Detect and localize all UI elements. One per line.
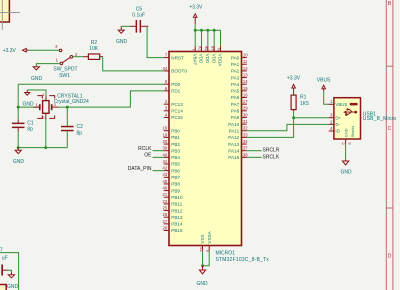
MCU left pins xyxy=(163,53,188,234)
svg-text:41: 41 xyxy=(163,159,168,164)
crystal CRYSTAL1 Crystal_GND24 xyxy=(34,92,90,120)
wire VDD pin drop xyxy=(207,30,209,46)
svg-text:GND: GND xyxy=(7,284,19,290)
svg-text:PD0: PD0 xyxy=(171,82,180,87)
wire C1 to gnd rail xyxy=(17,131,19,147)
partial symbol bottom-left corner xyxy=(0,285,6,290)
resistor R1 1K5 xyxy=(291,94,309,111)
svg-text:VBAT: VBAT xyxy=(192,54,197,66)
svg-text:PB8: PB8 xyxy=(171,182,180,187)
svg-text:15: 15 xyxy=(243,86,248,91)
wire crystal pin1 xyxy=(18,106,39,108)
junction xyxy=(66,106,69,109)
svg-text:19: 19 xyxy=(163,132,168,137)
svg-text:VBUS: VBUS xyxy=(317,78,331,84)
svg-text:PB10: PB10 xyxy=(171,195,183,200)
svg-text:PB1: PB1 xyxy=(171,135,180,140)
svg-text:20: 20 xyxy=(163,139,168,144)
switch SW1 SW_SPDT xyxy=(53,44,78,79)
wire osc vertical (C1 branch) xyxy=(17,84,19,119)
wire GND to C5 xyxy=(121,25,130,27)
wire VSSA to GND xyxy=(203,251,210,266)
svg-text:SRCLR: SRCLR xyxy=(263,148,280,154)
svg-text:13: 13 xyxy=(243,72,248,77)
capacitor C2 8p xyxy=(61,107,83,147)
svg-text:1K5: 1K5 xyxy=(300,101,309,107)
capacitor C5 0.1uF xyxy=(130,6,148,32)
svg-text:VDD: VDD xyxy=(199,54,204,64)
svg-text:VBUS: VBUS xyxy=(335,102,347,107)
capacitor (partial, bottom-left) reference 7 and value uF xyxy=(0,247,8,275)
wire crystal pin2 drop xyxy=(45,120,47,148)
svg-text:GND: GND xyxy=(196,281,208,287)
wire OSC net to PD0 xyxy=(18,83,164,85)
svg-text:PA13: PA13 xyxy=(228,142,239,147)
svg-text:8p: 8p xyxy=(27,127,33,133)
wire SW1 pin 1 to GND xyxy=(36,64,60,67)
wire crystal pin3 to junction xyxy=(59,106,68,108)
svg-text:PB6: PB6 xyxy=(171,168,180,173)
svg-text:PA7: PA7 xyxy=(231,102,240,107)
junction xyxy=(17,146,20,149)
wire label RCLK to PB pin xyxy=(153,150,164,152)
svg-text:SW_SPDT: SW_SPDT xyxy=(53,67,77,73)
junction xyxy=(200,29,203,32)
wire VBAT pin drop xyxy=(194,30,196,46)
svg-text:PA9: PA9 xyxy=(231,115,240,120)
svg-text:45: 45 xyxy=(163,179,168,184)
svg-text:PA4: PA4 xyxy=(231,82,240,87)
svg-text:PA3: PA3 xyxy=(231,75,240,80)
partial symbol top-left corner xyxy=(0,0,20,30)
svg-text:VDD: VDD xyxy=(211,54,216,64)
svg-text:GND: GND xyxy=(343,128,348,137)
svg-text:25: 25 xyxy=(163,205,168,210)
wire VDD pin drop xyxy=(213,30,215,46)
svg-text:18: 18 xyxy=(163,126,168,131)
svg-text:SRCLK: SRCLK xyxy=(263,154,280,160)
svg-text:D: D xyxy=(388,253,392,259)
svg-text:33: 33 xyxy=(243,132,248,137)
wire USB shield to GND xyxy=(345,143,347,159)
svg-text:Shield: Shield xyxy=(350,126,355,137)
wire VDD rail xyxy=(195,29,220,31)
wire crystal shield top xyxy=(27,90,46,96)
svg-text:26: 26 xyxy=(163,212,168,217)
svg-text:PA10: PA10 xyxy=(228,122,239,127)
svg-text:C2: C2 xyxy=(77,124,84,130)
svg-text:DATA_PIN: DATA_PIN xyxy=(128,166,152,172)
capacitor C1 8p xyxy=(12,120,34,133)
svg-text:PA14: PA14 xyxy=(228,148,239,153)
svg-text:NRST: NRST xyxy=(171,55,184,60)
svg-text:USB_B_Micro: USB_B_Micro xyxy=(363,116,397,122)
svg-text:VDDA: VDDA xyxy=(218,54,223,68)
svg-text:GND: GND xyxy=(340,170,352,176)
svg-text:22: 22 xyxy=(163,199,168,204)
svg-text:SW1: SW1 xyxy=(59,73,70,79)
wire crystal to PD1 xyxy=(67,91,164,107)
svg-text:32: 32 xyxy=(243,126,248,131)
svg-text:40: 40 xyxy=(163,152,168,157)
power symbol +3.3V (R1) xyxy=(287,76,301,96)
svg-text:7: 7 xyxy=(0,247,3,253)
svg-text:8p: 8p xyxy=(77,131,83,137)
MCU right pins xyxy=(228,53,248,161)
wire label SRCLK xyxy=(247,156,262,158)
svg-text:VSS: VSS xyxy=(200,234,205,243)
svg-text:MICRO1: MICRO1 xyxy=(216,251,236,257)
junction xyxy=(213,29,216,32)
junction xyxy=(194,29,197,32)
wire VBUS to USB pin1 xyxy=(324,91,329,104)
svg-text:PA1: PA1 xyxy=(231,62,240,67)
svg-text:16: 16 xyxy=(243,92,248,97)
svg-text:21: 21 xyxy=(163,192,168,197)
svg-text:PA5: PA5 xyxy=(231,89,240,94)
svg-text:PB14: PB14 xyxy=(171,222,183,227)
svg-text:PB7: PB7 xyxy=(171,175,180,180)
svg-text:PB3: PB3 xyxy=(171,148,180,153)
svg-text:44: 44 xyxy=(163,66,168,71)
svg-text:PA15: PA15 xyxy=(228,155,239,160)
wire gnd rail xyxy=(18,147,67,149)
ground symbol (switch) xyxy=(31,67,43,82)
svg-text:C1: C1 xyxy=(27,120,34,126)
wire PA11 to USB D- xyxy=(247,124,329,130)
svg-text:PB2: PB2 xyxy=(171,142,180,147)
power symbol VBUS xyxy=(317,78,331,92)
junction xyxy=(206,29,209,32)
wire R2 to BOOT0 xyxy=(103,57,164,71)
svg-text:11: 11 xyxy=(243,59,248,64)
svg-text:PB0: PB0 xyxy=(171,128,180,133)
svg-text:27: 27 xyxy=(163,219,168,224)
svg-text:D+: D+ xyxy=(335,115,341,120)
svg-text:GND: GND xyxy=(31,76,43,82)
ground symbol (crystal rail) xyxy=(13,148,25,165)
svg-text:23: 23 xyxy=(199,247,204,252)
svg-text:GND: GND xyxy=(22,102,34,108)
svg-text:R2: R2 xyxy=(91,40,98,46)
svg-text:PC15: PC15 xyxy=(171,115,183,120)
ground symbol (bottom-left) xyxy=(7,272,19,290)
svg-text:PB5: PB5 xyxy=(171,162,180,167)
svg-text:PB9: PB9 xyxy=(171,188,180,193)
svg-text:+3.3V: +3.3V xyxy=(189,4,203,10)
junction xyxy=(201,264,204,267)
svg-text:PB15: PB15 xyxy=(171,228,183,233)
svg-text:PB4: PB4 xyxy=(171,155,180,160)
svg-text:GND: GND xyxy=(116,39,128,45)
svg-text:34: 34 xyxy=(243,139,248,144)
svg-text:PD1: PD1 xyxy=(171,89,180,94)
wire C5 to NRST xyxy=(147,26,164,57)
svg-text:RCLK: RCLK xyxy=(138,146,152,152)
svg-text:0.1uF: 0.1uF xyxy=(132,13,145,19)
svg-text:29: 29 xyxy=(243,106,248,111)
svg-text:OE: OE xyxy=(144,153,152,159)
wire label DATA_PIN to PB pin xyxy=(153,170,164,172)
svg-text:C5: C5 xyxy=(136,6,143,12)
svg-text:C: C xyxy=(388,126,392,132)
svg-text:38: 38 xyxy=(243,152,248,157)
svg-text:42: 42 xyxy=(163,166,168,171)
svg-text:46: 46 xyxy=(163,186,168,191)
svg-text:PA2: PA2 xyxy=(231,69,240,74)
MCU MICRO1 body xyxy=(169,52,242,246)
power symbol +3.3V (MCU) xyxy=(189,4,203,24)
svg-text:PA8: PA8 xyxy=(231,109,240,114)
MCU bottom pins VSS VSSA xyxy=(199,230,212,251)
wire VDDA pin drop xyxy=(220,30,222,46)
junction xyxy=(44,146,47,149)
wire to USB D+ xyxy=(294,117,329,119)
svg-text:10K: 10K xyxy=(89,46,99,52)
wire PA12 to R1/D+ xyxy=(247,111,294,137)
ground symbol (USB) xyxy=(340,159,352,175)
ground symbol (C5) xyxy=(116,26,128,45)
svg-text:39: 39 xyxy=(163,146,168,151)
svg-text:14: 14 xyxy=(243,79,248,84)
svg-text:+3.3V: +3.3V xyxy=(287,76,301,82)
power symbol +3.3V (switch) xyxy=(3,48,29,54)
wire +3.3V stem xyxy=(194,24,196,30)
svg-text:VDD: VDD xyxy=(205,54,210,64)
wire VDD pin drop xyxy=(201,30,203,46)
svg-text:GND: GND xyxy=(13,159,25,165)
ground symbol (crystal top) xyxy=(22,90,34,108)
svg-text:PA11: PA11 xyxy=(229,128,240,133)
svg-text:VSSA: VSSA xyxy=(207,230,212,243)
junction xyxy=(292,116,295,119)
svg-text:28: 28 xyxy=(163,225,168,230)
svg-text:BOOT0: BOOT0 xyxy=(171,69,187,74)
svg-text:43: 43 xyxy=(163,172,168,177)
svg-text:uF: uF xyxy=(2,255,8,261)
wire cap to GND xyxy=(8,270,12,272)
wire bottom-left net xyxy=(0,253,19,290)
svg-text:Crystal_GND24: Crystal_GND24 xyxy=(54,99,89,105)
wire label SRCLR xyxy=(247,150,262,152)
wire label OE to PB pin xyxy=(153,156,164,158)
svg-text:30: 30 xyxy=(243,112,248,117)
svg-text:ID: ID xyxy=(335,129,339,134)
wire +3.3V to SW1 pin 3 xyxy=(29,49,59,51)
sheet border (right edge) xyxy=(386,0,393,290)
MCU top pins VBAT VDD VDD VDD VDDA xyxy=(191,45,222,67)
svg-text:+3.3V: +3.3V xyxy=(3,48,17,54)
svg-text:D-: D- xyxy=(335,122,340,127)
svg-text:STM32F103C_8-B_Tx: STM32F103C_8-B_Tx xyxy=(216,257,270,263)
svg-text:37: 37 xyxy=(243,146,248,151)
junction xyxy=(17,106,20,109)
svg-text:PA0: PA0 xyxy=(231,55,240,60)
ground symbol (MCU) xyxy=(196,266,208,287)
connector USB1 USB_B_Micro xyxy=(329,98,397,145)
svg-text:R1: R1 xyxy=(300,94,307,100)
svg-text:PA12: PA12 xyxy=(228,135,239,140)
wire VSS to GND xyxy=(202,251,204,266)
svg-text:12: 12 xyxy=(243,66,248,71)
resistor R2 10K xyxy=(83,40,103,59)
svg-text:PA6: PA6 xyxy=(231,95,240,100)
wire SW1 pin 2 to R2 xyxy=(73,56,83,58)
svg-text:17: 17 xyxy=(243,99,248,104)
svg-text:PB13: PB13 xyxy=(171,215,183,220)
svg-text:31: 31 xyxy=(243,119,248,124)
svg-text:PC14: PC14 xyxy=(171,109,183,114)
svg-text:10: 10 xyxy=(243,53,248,58)
svg-text:PB11: PB11 xyxy=(171,202,182,207)
svg-text:PB12: PB12 xyxy=(171,208,183,213)
svg-text:PC13: PC13 xyxy=(171,102,183,107)
